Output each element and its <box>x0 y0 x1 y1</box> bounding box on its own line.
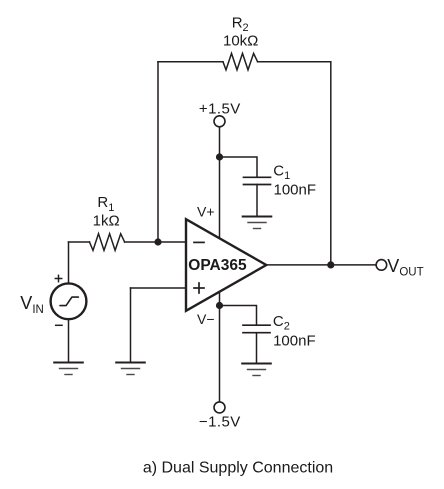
wire: branch to C2 <box>220 306 257 326</box>
svg-text:V−: V− <box>197 311 215 327</box>
source VIN step symbol <box>60 297 78 306</box>
capacitor C1 plates <box>244 177 271 184</box>
junction: V- / C2 node <box>216 302 223 309</box>
source VIN circle <box>51 283 87 319</box>
wire: +1.5V supply down to op-amp V+ <box>219 127 221 238</box>
wire: Vin to R1 <box>69 241 90 243</box>
junction: output / feedback node <box>327 261 334 268</box>
svg-text:VIN: VIN <box>20 293 44 316</box>
junction: V+ / C1 node <box>216 153 223 160</box>
svg-text:C1: C1 <box>273 162 290 182</box>
source VIN plus polarity mark <box>55 275 61 281</box>
junction: R1 / feedback node <box>154 238 161 245</box>
svg-text:C2: C2 <box>273 313 290 333</box>
wire: R1 to inverting input <box>125 241 186 243</box>
ground: under C2 <box>242 364 271 376</box>
source VIN minus polarity mark <box>56 324 62 326</box>
wire: Vin minus lead down <box>68 319 70 362</box>
svg-text:VOUT: VOUT <box>387 256 423 279</box>
terminal circle -1.5V <box>214 402 225 413</box>
wire: branch to C1 <box>220 157 258 177</box>
terminal circle +1.5V <box>214 116 225 127</box>
svg-text:100nF: 100nF <box>273 333 316 350</box>
svg-text:1kΩ: 1kΩ <box>93 213 120 230</box>
capacitor C2 plates <box>243 325 270 333</box>
svg-text:100nF: 100nF <box>274 182 317 199</box>
ground: under non-inverting input <box>116 363 145 375</box>
wire: feedback top-right segment <box>258 61 331 63</box>
wire: C2 to ground <box>256 333 258 364</box>
wire: feedback right vertical <box>330 62 332 265</box>
resistor R1 <box>90 234 125 251</box>
svg-text:10kΩ: 10kΩ <box>223 33 258 50</box>
svg-text:+1.5V: +1.5V <box>199 101 241 118</box>
wire: op-amp output <box>266 264 376 266</box>
wire: feedback left vertical <box>157 62 159 242</box>
svg-text:−1.5V: −1.5V <box>199 413 241 430</box>
ground: under C1 <box>243 217 272 229</box>
wire: non-inverting input down to ground <box>130 288 132 363</box>
svg-text:a) Dual Supply Connection: a) Dual Supply Connection <box>143 460 333 477</box>
resistor R2 <box>223 53 258 70</box>
ground: under VIN <box>54 363 83 375</box>
wire: non-inverting input horizontal <box>131 287 187 289</box>
svg-text:OPA365: OPA365 <box>188 257 247 274</box>
svg-text:R1: R1 <box>97 194 114 214</box>
wire: Vin plus lead up <box>68 242 70 283</box>
op-amp plus input marker <box>194 283 204 293</box>
wire: V- down to -1.5V terminal <box>219 292 221 402</box>
wire: C1 to ground <box>256 185 258 217</box>
wire: feedback top-left segment <box>158 61 223 63</box>
terminal circle VOUT <box>376 260 387 271</box>
op-amp minus input marker <box>194 241 204 243</box>
op-amp U1 OPA365 triangle <box>186 219 266 311</box>
svg-text:V+: V+ <box>197 204 215 220</box>
svg-text:R2: R2 <box>232 15 249 35</box>
